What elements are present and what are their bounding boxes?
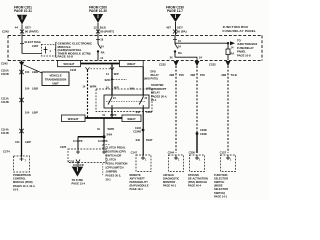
svg-text:104: 104 [25, 110, 30, 114]
svg-text:PAGE 14-1: PAGE 14-1 [214, 194, 228, 198]
svg-text:STARTER: STARTER [151, 83, 164, 87]
svg-text:942: 942 [136, 110, 141, 114]
svg-text:C242: C242 [70, 68, 77, 72]
svg-text:C225: C225 [60, 145, 67, 149]
svg-text:W/P: W/P [114, 72, 119, 76]
svg-text:90 (PART): 90 (PART) [25, 29, 39, 33]
svg-text:DIAGNOSTIC: DIAGNOSTIC [163, 176, 179, 180]
svg-text:DG/P: DG/P [146, 138, 153, 142]
svg-text:(W/O PATS): (W/O PATS) [144, 78, 158, 81]
svg-text:(PDA) MODULE: (PDA) MODULE [188, 180, 207, 184]
svg-text:PAGE 10-30: PAGE 10-30 [89, 9, 107, 13]
svg-text:RELAY: RELAY [151, 91, 160, 95]
svg-text:JUMPER): JUMPER) [106, 170, 118, 174]
svg-text:C232: C232 [159, 62, 166, 66]
svg-text:MODULE (PCM): MODULE (PCM) [13, 180, 33, 184]
svg-text:SELECTOR: SELECTOR [214, 187, 228, 191]
svg-text:20-1: 20-1 [151, 98, 157, 102]
svg-text:POWERTRAIN: POWERTRAIN [13, 173, 31, 177]
svg-text:CLUTCH: CLUTCH [106, 158, 117, 162]
svg-text:PAGE 10-31: PAGE 10-31 [14, 9, 32, 13]
svg-text:PAGE 40-4: PAGE 40-4 [188, 184, 202, 188]
svg-text:FUSE/RELAY PANEL: FUSE/RELAY PANEL [223, 29, 257, 33]
svg-text:C110B: C110B [1, 73, 9, 76]
svg-text:C157: C157 [220, 150, 227, 154]
svg-text:LB/B: LB/B [32, 86, 38, 90]
svg-text:C147: C147 [131, 150, 138, 154]
svg-text:W/O BAT: W/O BAT [63, 62, 74, 66]
svg-text:RA: RA [101, 51, 105, 55]
svg-text:JUNCTION BOX: JUNCTION BOX [237, 42, 258, 46]
svg-text:C113A: C113A [1, 98, 9, 101]
svg-text:SWITCH): SWITCH) [214, 191, 225, 195]
svg-text:PAGES 10-4, 19-4,: PAGES 10-4, 19-4, [13, 184, 35, 188]
svg-text:90 (PA): 90 (PA) [177, 29, 187, 33]
svg-text:AIR BAG: AIR BAG [163, 173, 174, 177]
svg-text:ELECT DIAG: ELECT DIAG [25, 40, 41, 44]
svg-text:C274: C274 [3, 150, 10, 154]
svg-text:DE-ACTIVATION: DE-ACTIVATION [188, 176, 208, 180]
svg-text:W/BAT: W/BAT [127, 117, 136, 121]
svg-text:90 (PART): 90 (PART) [100, 29, 114, 33]
svg-text:10 W/PK: 10 W/PK [98, 140, 108, 143]
svg-text:W/PK: W/PK [90, 84, 97, 88]
svg-text:(RAP) MODULE: (RAP) MODULE [130, 184, 149, 188]
svg-text:PEDAL POSITION: PEDAL POSITION [106, 162, 128, 166]
svg-text:PASSIVE: PASSIVE [188, 173, 199, 177]
svg-text:298: 298 [221, 73, 226, 77]
svg-text:POSITION (CPP): POSITION (CPP) [106, 150, 126, 154]
svg-text:942: 942 [136, 138, 141, 142]
svg-text:104: 104 [25, 70, 30, 74]
svg-text:RA: RA [231, 52, 235, 56]
svg-text:W/PK: W/PK [110, 114, 117, 117]
svg-text:C114A: C114A [1, 129, 9, 132]
svg-text:20-1: 20-1 [106, 178, 112, 182]
svg-text:PERSONALITY: PERSONALITY [130, 180, 149, 184]
svg-text:T/LB: T/LB [231, 73, 237, 77]
svg-text:FUSE/RELAY: FUSE/RELAY [237, 46, 254, 50]
svg-text:PANEL: PANEL [237, 49, 246, 53]
svg-text:19-3: 19-3 [13, 187, 19, 191]
svg-text:S404: S404 [107, 133, 113, 136]
svg-text:C232: C232 [209, 62, 216, 66]
svg-text:298: 298 [190, 73, 195, 77]
svg-text:104: 104 [25, 86, 30, 90]
svg-text:O/R: O/R [79, 164, 84, 167]
svg-text:C267: C267 [32, 44, 39, 48]
svg-text:PAGE 19-4: PAGE 19-4 [130, 187, 144, 191]
svg-text:P/O: P/O [200, 73, 206, 77]
svg-text:UNIT: UNIT [52, 81, 59, 85]
svg-text:PAGE 10-8: PAGE 10-8 [58, 55, 74, 59]
svg-text:TO: TO [237, 39, 241, 43]
svg-text:SWITCH: SWITCH [214, 180, 224, 184]
svg-text:CLUTCH PEDAL: CLUTCH PEDAL [106, 146, 127, 150]
svg-text:INTERRUPT: INTERRUPT [151, 87, 167, 91]
svg-text:12: 12 [93, 26, 97, 30]
svg-text:457: 457 [166, 26, 171, 30]
svg-text:FUNCTION: FUNCTION [214, 173, 228, 177]
svg-text:W/BAT: W/BAT [127, 62, 136, 66]
svg-text:PAGE 13-4: PAGE 13-4 [72, 182, 86, 186]
svg-text:C23B: C23B [200, 132, 207, 136]
svg-text:P/O: P/O [179, 73, 185, 77]
svg-text:C234: C234 [135, 127, 142, 130]
svg-text:W/PK: W/PK [108, 127, 115, 131]
svg-text:44: 44 [15, 26, 19, 30]
svg-text:C244: C244 [168, 150, 175, 154]
svg-text:540: 540 [130, 86, 135, 90]
svg-text:C23B: C23B [200, 128, 207, 132]
svg-text:298: 298 [169, 73, 174, 77]
svg-text:ANTI-THEFT: ANTI-THEFT [130, 176, 146, 180]
svg-text:REMOTE: REMOTE [130, 173, 141, 177]
svg-text:SELECTOR: SELECTOR [214, 176, 228, 180]
svg-text:PAGE 10-8: PAGE 10-8 [237, 53, 251, 57]
svg-text:PAGES 20-2,: PAGES 20-2, [106, 174, 122, 178]
svg-text:TO FUSE: TO FUSE [72, 178, 84, 182]
svg-text:(CPP) SWITCH: (CPP) SWITCH [106, 166, 124, 170]
svg-text:W/R BAT: W/R BAT [68, 117, 79, 121]
svg-text:C250: C250 [189, 150, 196, 154]
svg-text:PAGE 11-7: PAGE 11-7 [167, 9, 183, 13]
svg-text:C110A: C110A [1, 70, 9, 73]
svg-text:S204: S204 [104, 78, 111, 82]
svg-text:C234B: C234B [133, 131, 141, 134]
svg-text:101: 101 [73, 164, 78, 167]
svg-text:(MODE: (MODE [214, 184, 223, 188]
svg-text:SWITCH (OR: SWITCH (OR [106, 154, 122, 158]
svg-text:C114B: C114B [1, 132, 9, 135]
svg-text:RA: RA [178, 51, 182, 55]
svg-text:C113B: C113B [1, 101, 9, 104]
svg-text:DG/P: DG/P [146, 110, 153, 114]
svg-text:MONITOR: MONITOR [163, 180, 175, 184]
svg-text:C242: C242 [2, 29, 9, 33]
svg-text:LB/P: LB/P [25, 140, 31, 144]
svg-text:104: 104 [15, 140, 20, 144]
svg-text:C242: C242 [1, 61, 8, 65]
svg-text:CONTROL: CONTROL [13, 177, 26, 181]
svg-text:LB/P: LB/P [32, 110, 38, 114]
svg-text:PAGE 40-1: PAGE 40-1 [163, 184, 177, 188]
svg-text:PAGES 20-4,: PAGES 20-4, [151, 94, 167, 98]
